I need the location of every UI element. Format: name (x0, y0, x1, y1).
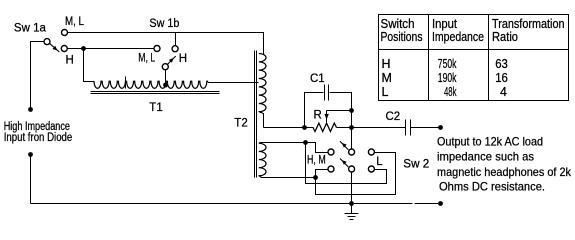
wire Sw2 row1 pole up to main node (351, 128, 353, 150)
svg-text:M: M (382, 71, 392, 85)
node ground junction dot (349, 201, 354, 206)
node bottom rail end dot (438, 201, 443, 206)
transformer T1 core (91, 91, 220, 93)
svg-text:Ohms DC resistance.: Ohms DC resistance. (439, 180, 545, 194)
switch Sw1a contact M,L circle (62, 30, 68, 36)
switch Sw2 row2 right contact circle (368, 166, 374, 172)
svg-text:H: H (66, 55, 74, 67)
switch Sw2 row1 left contact circle (328, 149, 334, 155)
node input terminal upper dot (28, 107, 33, 112)
wire bottom rail (31, 203, 413, 205)
node junction dot H row (81, 46, 86, 51)
wire C2 to output terminal (411, 127, 441, 129)
wire Sw1a pole to left rail (31, 42, 45, 110)
svg-text:16: 16 (495, 71, 508, 85)
svg-text:H: H (382, 57, 391, 71)
switch Sw1a contact H circle (61, 46, 67, 52)
wire input down to bottom rail (30, 155, 32, 204)
svg-text:Impedance: Impedance (432, 30, 484, 44)
wire wiper to right branch (327, 110, 352, 112)
svg-text:Positions: Positions (381, 30, 423, 44)
transformer T1 winding (94, 81, 208, 88)
svg-text:C2: C2 (386, 111, 401, 123)
switch Sw1a pole arrow (50, 44, 60, 52)
svg-text:Input fron Diode: Input fron Diode (4, 132, 73, 144)
svg-text:Sw 2: Sw 2 (403, 159, 429, 171)
switch Sw2 row2 left contact circle (328, 166, 334, 172)
svg-text:L: L (382, 85, 389, 99)
node dot winding top branch (303, 140, 308, 145)
switch Sw1b pole arrow (167, 56, 175, 64)
transformer T2 upper winding (259, 54, 266, 112)
wire junction down to T1 left (84, 49, 95, 82)
node wiper junction dot (349, 108, 354, 113)
svg-text:impedance such as: impedance such as (437, 150, 534, 164)
svg-text:4: 4 (500, 85, 507, 99)
potentiometer wiper arrow (326, 111, 328, 122)
svg-text:Input: Input (432, 17, 457, 31)
wire main wire R to C2 (337, 127, 406, 129)
switch Sw1b contact H circle (172, 46, 178, 52)
switch Sw2 row2 pole circle (349, 166, 355, 172)
wire Sw2 row2 pole down to ground rail (351, 172, 353, 204)
switch Sw1b pole circle (162, 64, 168, 70)
svg-text:750k: 750k (438, 57, 457, 71)
svg-text:H: H (179, 53, 187, 65)
svg-text:Sw 1a: Sw 1a (14, 23, 47, 35)
node dot main wire at C1 right (349, 125, 354, 130)
svg-text:48k: 48k (444, 85, 457, 99)
wire H row Sw1a to Sw1b (68, 48, 155, 50)
table Switch Positions / Input Impedance / Transformation Ratio (379, 15, 569, 101)
wire junction down around to upper L contact (316, 153, 396, 195)
switch Sw2 row1 pole arrow (340, 141, 348, 149)
node dot winding bottom junction (313, 175, 318, 180)
transformer T2 core (254, 51, 256, 178)
svg-text:T2: T2 (234, 118, 247, 130)
wire junction up to Sw2 row2 left contact (316, 170, 329, 178)
capacitor C1 plates (324, 85, 326, 101)
svg-text:R: R (314, 110, 322, 122)
svg-text:magnetic headphones of 2k: magnetic headphones of 2k (437, 165, 572, 179)
wire T2 lower winding top to Sw2 (260, 143, 316, 150)
switch Sw2 row1 right contact circle (368, 149, 374, 155)
resistor R zigzag (313, 123, 337, 131)
svg-text:Output to 12k AC load: Output to 12k AC load (437, 135, 543, 149)
svg-text:L: L (376, 156, 383, 168)
wire Sw1b H stub (175, 33, 177, 46)
wire T2 lower winding bottom (259, 176, 316, 178)
switch Sw2 row1 pole circle (349, 149, 355, 155)
node T1 tap dot (163, 83, 168, 88)
switch Sw1b contact M,L circle (154, 46, 160, 52)
svg-text:63: 63 (495, 57, 508, 71)
svg-text:Ratio: Ratio (492, 30, 518, 44)
wire T1 right to T2 (208, 82, 259, 83)
wire main output wire (264, 127, 314, 129)
svg-text:H, M: H, M (307, 154, 326, 166)
node output terminal dot (438, 125, 443, 130)
T1 tap tick (125, 77, 127, 89)
capacitor C2 plates (405, 120, 407, 136)
svg-text:M, L: M, L (138, 53, 155, 65)
svg-text:C1: C1 (310, 73, 325, 85)
svg-text:Transformation: Transformation (492, 17, 565, 31)
wire top rail M,L to T2 (68, 33, 264, 55)
wire T2 upper winding bottom to main node (259, 112, 264, 128)
transformer T2 lower winding (259, 143, 266, 176)
switch Sw1a pole circle (44, 39, 50, 45)
wire branch down and around to lower L contact (306, 143, 387, 184)
node input terminal lower dot (28, 152, 33, 157)
ground symbol (351, 204, 353, 214)
switch Sw2 row2 pole arrow (340, 159, 348, 167)
wire Sw1b pole down to T1 tap (165, 70, 167, 88)
svg-text:M, L: M, L (65, 16, 85, 28)
svg-text:190k: 190k (438, 71, 457, 85)
svg-text:Sw 1b: Sw 1b (149, 18, 179, 30)
node dot main wire at C1 left (302, 125, 307, 130)
svg-text:T1: T1 (149, 102, 162, 114)
capacitor C1 branch (305, 93, 324, 128)
svg-text:Switch: Switch (381, 17, 415, 31)
